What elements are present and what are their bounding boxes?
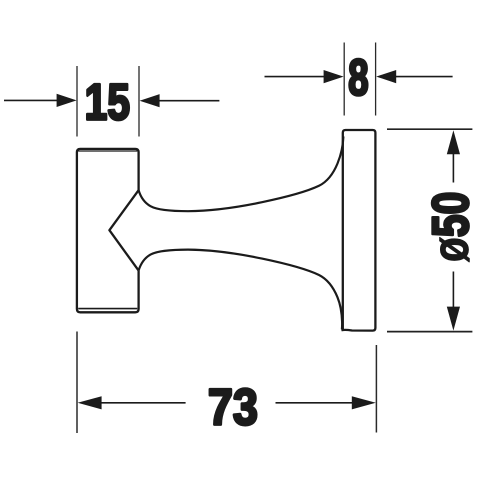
- dimension 15 : right extension line: [138, 66, 140, 137]
- dimension 15 : left leader line: [4, 99, 58, 101]
- dimension diameter 50 : up arrow: [447, 130, 460, 154]
- dimension 8 : value label: [349, 59, 367, 95]
- wall plate inner top chamfer line: [78, 150, 137, 152]
- dimension 73 : right arrow: [352, 396, 376, 409]
- dimension diameter 50 : lower leader line: [452, 272, 454, 309]
- dimension 15 : right leader line: [159, 100, 220, 102]
- dimension diameter 50 : top extension line: [387, 128, 472, 130]
- knob disc: [341, 130, 375, 331]
- wall plate outline: [77, 149, 139, 312]
- dimension diameter 50 : down arrow: [447, 307, 460, 331]
- dimension 15 : left extension line: [76, 66, 78, 137]
- dimension 15 : value label: [87, 84, 129, 120]
- dimension 15 : left arrow: [57, 94, 77, 107]
- dimension 8 : left leader line: [265, 76, 325, 78]
- dimension 8 : left arrow: [324, 70, 344, 83]
- dimension diameter 50 : value label (rotated): [432, 193, 469, 262]
- dimension diameter 50 : upper leader line: [452, 153, 454, 183]
- neck top profile curve: [139, 137, 344, 212]
- dimension 73 : value label: [210, 389, 256, 425]
- dimension 15 : right arrow: [140, 94, 160, 107]
- dimension 73 : right extension line: [375, 345, 377, 433]
- dimension 8 : right extension line: [375, 43, 377, 116]
- dimension diameter 50 : bottom extension line: [387, 331, 472, 333]
- cone tip of neck: [109, 190, 138, 270]
- dimension 73 : left arrow: [78, 396, 102, 409]
- wall plate inner bottom chamfer line: [78, 308, 137, 310]
- dimension 8 : left extension line: [343, 43, 345, 116]
- dimension 73 : left leader line: [101, 402, 186, 404]
- dimension 8 : right leader line: [395, 76, 452, 78]
- dimension 8 : right arrow: [376, 70, 396, 83]
- dimension 73 : right leader line: [276, 402, 353, 404]
- neck bottom profile curve: [139, 250, 343, 330]
- dimension 73 : left extension line: [76, 332, 78, 434]
